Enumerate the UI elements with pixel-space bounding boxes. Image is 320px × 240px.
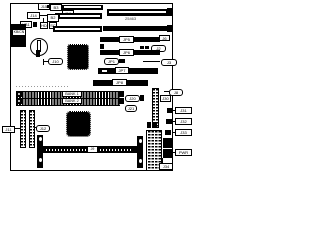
header H1 [20, 110, 26, 148]
text 25463 [125, 16, 145, 21]
DIN keyboard circle [30, 38, 48, 56]
label JP1 row [104, 58, 119, 65]
label KB [20, 21, 32, 28]
slot row2 left bar (outlined) [58, 13, 102, 19]
jumper box SC [49, 22, 57, 29]
jumper label J14 [27, 12, 40, 19]
right outside labels [175, 107, 192, 114]
bar A with label [100, 37, 119, 42]
leader line + label J3 [143, 61, 160, 62]
label KB/CN inside [12, 29, 26, 36]
horizontal slot bar [43, 146, 137, 153]
jumper blob [33, 22, 37, 27]
jumper marks + label J2 [140, 46, 144, 49]
SIMM bank2 [16, 98, 120, 106]
bottom label [159, 163, 173, 170]
ticks above jumper boxes [43, 18, 44, 22]
SIMM bank1 [16, 91, 120, 99]
big pin grid [146, 130, 162, 171]
bar B with label [100, 50, 119, 55]
slot row1 right bar (outlined) [107, 9, 168, 16]
small white box right [159, 35, 170, 41]
slot row1 left bar [62, 5, 103, 10]
jumper box HD [40, 22, 48, 29]
slot row3 left bar (outlined) [53, 26, 102, 32]
jumper dashes right of J16 [75, 13, 78, 16]
label J10 with T-bar [43, 59, 44, 65]
slot row3 end cap [167, 25, 172, 32]
left vertical bar [37, 135, 43, 168]
stadium label right border [169, 89, 183, 96]
slot row3 right bar [103, 26, 168, 31]
label left outside [2, 126, 15, 133]
cpu chip U2 [67, 112, 90, 136]
chipset chip U1 [68, 45, 88, 69]
faint pin numbers [16, 86, 70, 87]
right vertical bar [137, 136, 143, 168]
upper right header [152, 88, 159, 128]
slot row1 left connector box [50, 4, 62, 11]
jumper label J16 [62, 10, 74, 16]
jumper label J15 [38, 3, 50, 10]
label near header [160, 95, 171, 102]
wire from J14 to jumper row [40, 15, 55, 16]
jumper row dashes [55, 13, 58, 16]
label right of headers [36, 125, 50, 132]
bar C with label [98, 68, 158, 74]
key pin black tip [36, 50, 41, 57]
slot row2 left connector box [47, 14, 59, 22]
bar D with label [93, 80, 148, 86]
power connector [163, 138, 173, 148]
two tiny connectors [147, 122, 151, 128]
board outline [10, 3, 173, 171]
slot row1 right end cap [167, 8, 172, 16]
label on bar [87, 146, 98, 153]
small jumper left [100, 44, 104, 49]
keyboard connector block [11, 24, 26, 47]
header H2 [29, 110, 35, 148]
key pin inside circle [37, 40, 41, 52]
